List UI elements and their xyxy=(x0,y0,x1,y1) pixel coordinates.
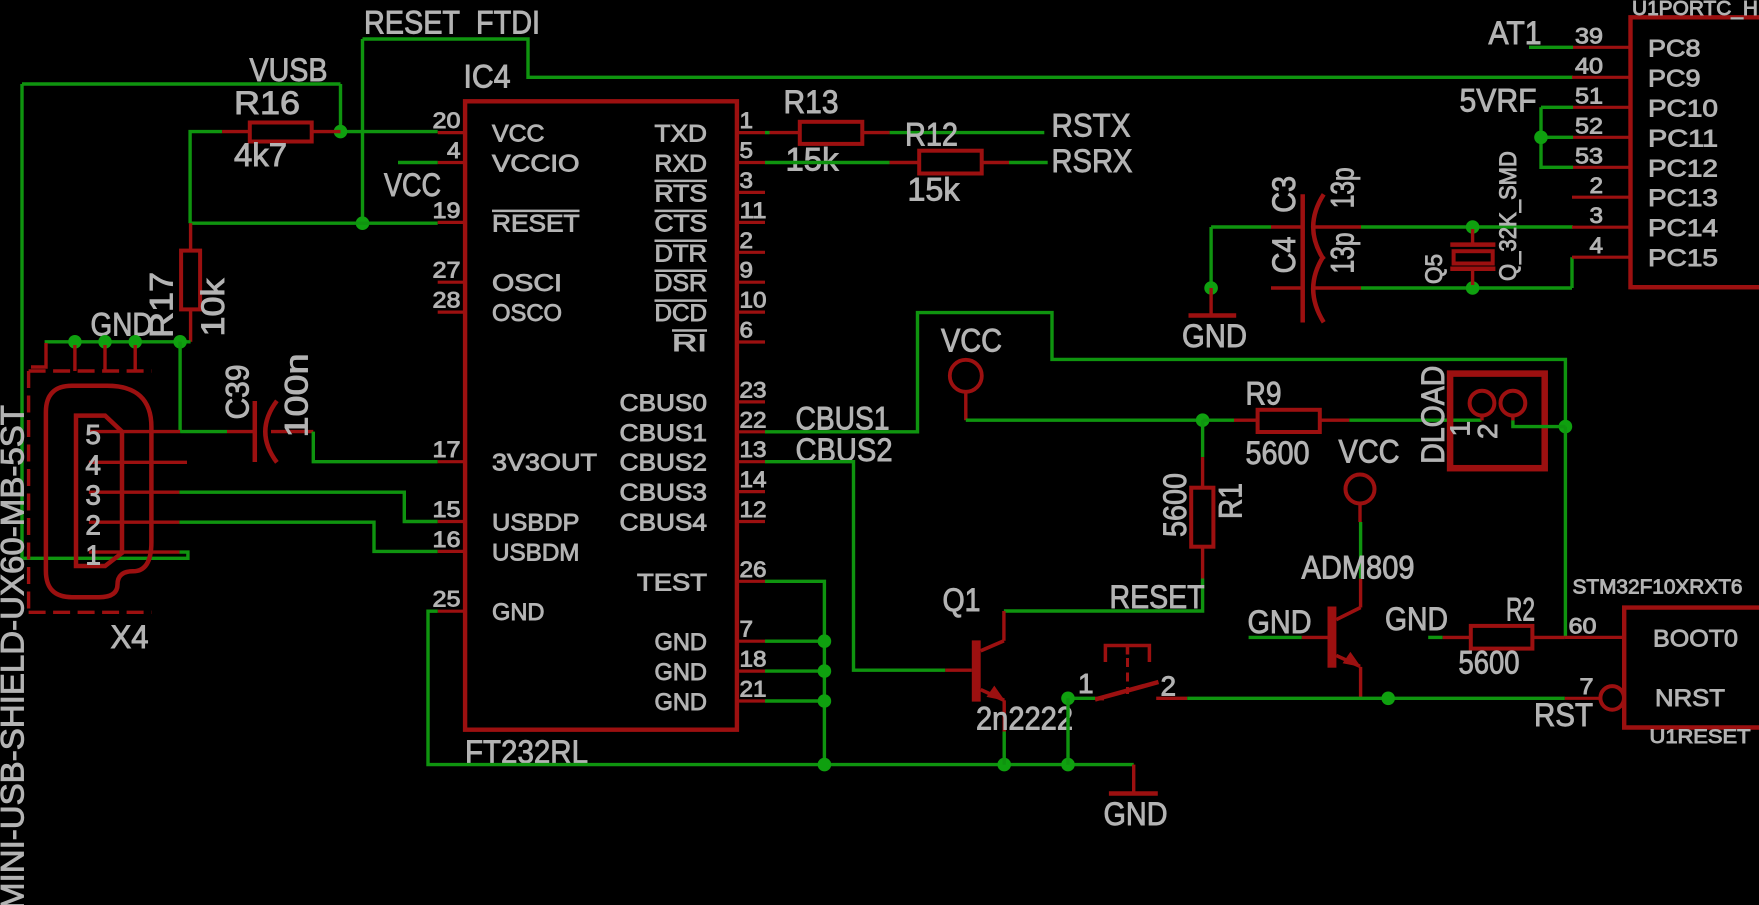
pin 9 IC4 right stub xyxy=(737,281,765,284)
junction VUSB/R16/VCC-pin xyxy=(334,125,348,139)
svg-text:11: 11 xyxy=(740,198,767,223)
pin 26 IC4 right stub xyxy=(737,580,765,583)
svg-text:USBDM: USBDM xyxy=(492,539,580,566)
wire GND rail xyxy=(45,340,191,343)
svg-text:PC11: PC11 xyxy=(1648,125,1718,152)
svg-text:RSRX: RSRX xyxy=(1052,143,1133,179)
svg-text:CBUS3: CBUS3 xyxy=(620,480,708,507)
ground GND symbol bottom xyxy=(1132,765,1135,794)
pin 16 IC4 left stub xyxy=(438,550,465,553)
op-amp U1PORTC_H box xyxy=(1631,17,1759,287)
wire TEST to GND pins xyxy=(765,581,824,764)
svg-text:51: 51 xyxy=(1575,83,1603,108)
svg-text:C4: C4 xyxy=(1266,237,1302,274)
pin 4 PC15 stub xyxy=(1572,256,1631,259)
svg-text:TEST: TEST xyxy=(637,569,707,596)
wire DLOAD pin 2 to junction xyxy=(1513,420,1566,426)
svg-text:15k: 15k xyxy=(908,172,961,208)
svg-text:OSCO: OSCO xyxy=(492,300,562,327)
pin 20 IC4 left stub xyxy=(438,131,465,134)
wire Q1 emitter to GND rail xyxy=(1003,732,1006,765)
connector X4 pin 4 line xyxy=(89,461,187,464)
switch S1 pin 2 xyxy=(1156,697,1187,700)
svg-text:PC15: PC15 xyxy=(1648,245,1718,272)
pin 14 IC4 right stub xyxy=(737,490,765,493)
svg-text:VCC: VCC xyxy=(384,167,441,203)
svg-text:RTS: RTS xyxy=(655,180,708,207)
wire GND stub at R2 xyxy=(1428,636,1443,639)
pin 27 IC4 left stub xyxy=(438,281,465,284)
connector X4 shield pin c xyxy=(133,345,136,371)
svg-text:60: 60 xyxy=(1569,614,1597,639)
svg-text:39: 39 xyxy=(1575,23,1603,48)
pin 17 IC4 left stub xyxy=(438,460,465,463)
svg-text:7: 7 xyxy=(1580,674,1594,699)
pin 3 IC4 right stub xyxy=(737,191,765,194)
pin 53 PC12 stub xyxy=(1572,166,1631,169)
svg-text:CBUS4: CBUS4 xyxy=(620,510,708,537)
svg-text:OSCI: OSCI xyxy=(492,270,562,297)
svg-text:C39: C39 xyxy=(220,365,256,420)
resistor R16 xyxy=(222,130,250,133)
svg-text:RSTX: RSTX xyxy=(1052,108,1131,144)
pin 1 IC4 right stub xyxy=(737,131,765,134)
pin 25 IC4 left stub xyxy=(438,610,465,613)
switch S1 pin 1 xyxy=(1074,697,1095,700)
connector DLOAD body xyxy=(1450,374,1545,469)
svg-text:U1RESET: U1RESET xyxy=(1650,727,1751,748)
resistor R2 xyxy=(1443,636,1471,639)
junction Q5 bottom xyxy=(1466,281,1480,295)
wire RESET_FTDI vertical to pin19 row xyxy=(361,39,364,223)
svg-text:IC4: IC4 xyxy=(464,59,511,95)
junction C4/GND xyxy=(1204,281,1218,295)
crystal Q5 xyxy=(1471,229,1474,245)
svg-text:RST: RST xyxy=(1534,697,1593,733)
junction CBUS1/DLOAD pin2 xyxy=(1559,420,1573,434)
junction GND pin 18 xyxy=(818,664,832,678)
wire 5VRF to PC11 xyxy=(1541,136,1573,139)
svg-text:GND: GND xyxy=(655,629,708,656)
pin 2 PC13 stub xyxy=(1572,196,1631,199)
svg-text:3: 3 xyxy=(740,168,754,193)
svg-text:GND: GND xyxy=(1248,604,1312,640)
wire GND pin 21 stub xyxy=(765,699,824,702)
connector X4 shield pin d corner xyxy=(31,343,46,367)
svg-text:13p: 13p xyxy=(1325,233,1361,274)
svg-text:CBUS2: CBUS2 xyxy=(620,450,708,477)
pin 2 IC4 right stub xyxy=(737,251,765,254)
svg-text:12: 12 xyxy=(740,497,767,522)
wire GND pin 7 stub xyxy=(765,640,824,643)
pin 19 IC4 left stub xyxy=(438,221,465,224)
svg-text:5: 5 xyxy=(85,419,101,450)
switch S1 contact blade xyxy=(1095,682,1159,700)
transistor Q1 2n2222 xyxy=(972,640,981,701)
wire VCC stub at pin 4 xyxy=(398,161,438,164)
pin 6 IC4 right stub xyxy=(737,340,765,343)
pin 23 IC4 right stub xyxy=(737,400,765,403)
connector X4 pin 1 line xyxy=(89,550,179,553)
svg-text:DCD: DCD xyxy=(655,300,708,327)
wire R1 to RESET wire xyxy=(1004,579,1203,612)
svg-text:2n2222: 2n2222 xyxy=(976,701,1073,737)
pin 12 IC4 right stub xyxy=(737,520,765,523)
svg-text:R2: R2 xyxy=(1506,592,1535,628)
wire VUSB left vertical to X4 pin1 xyxy=(22,84,188,558)
junction RESET_FTDI/pin19 xyxy=(356,216,370,230)
svg-text:10k: 10k xyxy=(195,277,231,336)
wire R16-R17 to IC4 RESET pin 19 xyxy=(190,221,438,224)
svg-text:GND: GND xyxy=(1385,601,1448,637)
wire VCC to ADM809 xyxy=(1359,522,1362,579)
svg-text:27: 27 xyxy=(433,258,461,283)
svg-text:22: 22 xyxy=(740,407,767,432)
svg-text:5600: 5600 xyxy=(1157,473,1193,537)
wire PC15 riser xyxy=(1570,257,1573,288)
svg-text:2: 2 xyxy=(1590,173,1604,198)
svg-text:20: 20 xyxy=(433,108,461,133)
wire crystal left vertical xyxy=(1209,227,1212,288)
wire C4 to PC15 rail xyxy=(1361,286,1572,289)
pin 21 IC4 right stub xyxy=(737,699,765,702)
svg-text:R13: R13 xyxy=(784,84,839,120)
connector X4 dashed outline xyxy=(29,369,152,372)
connector X4 shield pin b xyxy=(103,345,106,371)
wire GND stub at ADM809 base xyxy=(1249,636,1302,639)
svg-text:PC9: PC9 xyxy=(1648,65,1701,92)
svg-text:BOOT0: BOOT0 xyxy=(1653,626,1738,653)
svg-text:DSR: DSR xyxy=(655,270,708,297)
svg-text:PC8: PC8 xyxy=(1648,35,1701,62)
wire VUSB top horizontal xyxy=(22,82,341,85)
resistor R9 xyxy=(1234,419,1258,422)
resistor R13 xyxy=(770,131,800,134)
pin 22 IC4 right stub xyxy=(737,430,765,433)
wire VUSB to IC4 pin 20 xyxy=(341,130,438,133)
svg-text:53: 53 xyxy=(1575,143,1603,168)
junction switch pin 1 xyxy=(1061,692,1075,706)
svg-text:DLOAD: DLOAD xyxy=(1415,366,1451,464)
svg-text:TXD: TXD xyxy=(655,121,708,148)
svg-text:RXD: RXD xyxy=(655,151,708,178)
op-amp U1 IC4 FT232RL body xyxy=(465,101,737,729)
svg-text:2: 2 xyxy=(1161,671,1177,702)
svg-text:28: 28 xyxy=(433,288,461,313)
svg-text:26: 26 xyxy=(740,557,767,582)
connector X4 pin 5 line xyxy=(89,430,180,433)
wire TXD stub xyxy=(765,131,770,134)
junction GND rail / Q1 emitter xyxy=(997,758,1011,772)
switch S1 button bracket xyxy=(1105,646,1149,663)
wire R16 left lead drop xyxy=(190,132,222,224)
junction GND rail 4 xyxy=(173,335,187,349)
wire RSTX xyxy=(890,131,1045,134)
pin 18 IC4 right stub xyxy=(737,669,765,672)
connector X4 outer shell xyxy=(46,386,151,597)
wire GND pin 18 stub xyxy=(765,669,824,672)
svg-text:1: 1 xyxy=(740,108,754,133)
wire VCC junction to R9 xyxy=(1203,419,1234,422)
svg-text:PC12: PC12 xyxy=(1648,155,1718,182)
svg-text:5: 5 xyxy=(740,138,754,163)
connector X4 inner cavity xyxy=(76,416,122,566)
svg-text:VCC: VCC xyxy=(941,323,1002,359)
svg-text:PC14: PC14 xyxy=(1648,215,1718,242)
capacitor C39 xyxy=(227,430,255,433)
pin 7 NRST bubble xyxy=(1600,686,1624,710)
wire CBUS1 down to R2 row xyxy=(1564,427,1567,638)
wire VCC to junction xyxy=(966,419,1203,422)
svg-text:15k: 15k xyxy=(786,142,840,178)
svg-text:21: 21 xyxy=(740,677,767,702)
svg-text:Q_32K_SMD: Q_32K_SMD xyxy=(1495,151,1522,281)
pin 28 IC4 left stub xyxy=(438,311,465,314)
svg-text:17: 17 xyxy=(433,437,461,462)
wire 5VRF to PC10/PC11/PC12 xyxy=(1541,106,1573,109)
svg-text:RESET: RESET xyxy=(492,210,580,237)
wire RESET_FTDI top segment xyxy=(363,39,1574,77)
pin 39 PC8 stub xyxy=(1572,46,1631,49)
svg-text:MINI-USB-SHIELD-UX60-MB-5ST: MINI-USB-SHIELD-UX60-MB-5ST xyxy=(0,405,31,905)
svg-text:3: 3 xyxy=(85,480,101,511)
wire RST from switch pin2 to NRST xyxy=(1187,697,1565,700)
pin 5 IC4 right stub xyxy=(737,161,765,164)
transistor ADM809 xyxy=(1359,579,1362,608)
svg-text:RESET: RESET xyxy=(1110,579,1205,615)
svg-text:CTS: CTS xyxy=(655,210,708,237)
pin 10 IC4 right stub xyxy=(737,311,765,314)
svg-text:23: 23 xyxy=(740,377,767,402)
wire USBDM X4 pin2 to IC4 pin16 xyxy=(179,522,437,551)
svg-text:R9: R9 xyxy=(1246,376,1282,412)
svg-text:3V3OUT: 3V3OUT xyxy=(492,450,597,477)
wire VUSB drop to R16 right xyxy=(339,84,342,132)
wire X4 pin5 to C39 xyxy=(180,430,227,433)
svg-text:4: 4 xyxy=(85,450,101,481)
junction GND pin 7 xyxy=(818,634,832,648)
resistor R1 xyxy=(1201,457,1204,488)
svg-text:5600: 5600 xyxy=(1246,435,1310,471)
svg-text:5VRF: 5VRF xyxy=(1460,83,1537,119)
wire AT1 to PC8 xyxy=(1529,46,1573,49)
svg-text:GND: GND xyxy=(655,689,708,716)
junction RST xyxy=(1381,692,1395,706)
wire CBUS2 from pin 13 to Q1 base xyxy=(765,462,945,671)
svg-text:Q1: Q1 xyxy=(943,582,981,618)
svg-text:16: 16 xyxy=(433,527,461,552)
wire CBUS1 from pin 22 xyxy=(765,313,1565,432)
svg-text:CBUS1: CBUS1 xyxy=(620,420,708,447)
junction GND rail 2 xyxy=(98,335,112,349)
svg-text:15: 15 xyxy=(433,497,461,522)
svg-text:VCCIO: VCCIO xyxy=(492,151,580,178)
svg-text:10: 10 xyxy=(740,288,767,313)
pin 13 IC4 right stub xyxy=(737,460,765,463)
svg-text:100n: 100n xyxy=(279,354,315,438)
junction GND rail / TEST column xyxy=(818,758,832,772)
connector DLOAD pin 2 circle xyxy=(1501,391,1526,416)
pin 3 PC14 stub xyxy=(1572,226,1631,229)
connector X4 pin 3 line xyxy=(89,491,179,494)
svg-text:40: 40 xyxy=(1575,53,1603,78)
resistor R12 xyxy=(890,161,920,164)
svg-text:CBUS0: CBUS0 xyxy=(620,390,708,417)
junction Q5 top xyxy=(1466,220,1480,234)
svg-text:13: 13 xyxy=(740,437,767,462)
pin 4 IC4 left stub xyxy=(438,161,465,164)
pin 52 PC11 stub xyxy=(1572,136,1631,139)
svg-text:25: 25 xyxy=(433,587,461,612)
connector X4 shield pin a xyxy=(73,345,76,371)
svg-text:VCC: VCC xyxy=(1339,434,1400,470)
svg-text:14: 14 xyxy=(740,467,767,492)
svg-text:1: 1 xyxy=(85,540,101,571)
svg-text:R16: R16 xyxy=(234,85,300,121)
svg-text:4k7: 4k7 xyxy=(234,137,287,173)
svg-text:R1: R1 xyxy=(1213,483,1249,519)
pin 51 PC10 stub xyxy=(1572,106,1631,109)
junction VCC/R9/R1 xyxy=(1196,413,1210,427)
svg-text:2: 2 xyxy=(85,510,101,541)
svg-text:DTR: DTR xyxy=(655,240,708,267)
wire C3 to PC14 xyxy=(1361,225,1573,228)
wire junction to R1 xyxy=(1201,420,1204,457)
wire PC14 net top rail xyxy=(1211,225,1271,228)
svg-text:STM32F10XRXT6: STM32F10XRXT6 xyxy=(1573,577,1743,599)
svg-text:NRST: NRST xyxy=(1655,685,1725,712)
junction GND rail 1 xyxy=(68,335,82,349)
svg-text:4: 4 xyxy=(447,138,461,163)
svg-text:GND: GND xyxy=(1104,796,1168,832)
op-amp U1RESET box xyxy=(1624,608,1759,728)
connector DLOAD pin 1 circle xyxy=(1470,391,1495,416)
svg-text:C3: C3 xyxy=(1266,176,1302,213)
wire X4 pin5 riser xyxy=(178,342,181,432)
pin 60 BOOT0 stub xyxy=(1565,636,1624,639)
connector X4 pin 2 line xyxy=(89,521,179,524)
svg-text:4: 4 xyxy=(1590,233,1604,258)
svg-text:1: 1 xyxy=(1445,421,1476,437)
capacitor C3 xyxy=(1271,225,1303,228)
svg-text:18: 18 xyxy=(740,647,767,672)
wire C39 to IC4 pin 17 xyxy=(313,432,437,462)
pin 11 IC4 right stub xyxy=(737,221,765,224)
wire RSRX xyxy=(1009,161,1048,164)
svg-text:GND: GND xyxy=(1182,318,1247,354)
svg-text:ADM809: ADM809 xyxy=(1302,550,1415,586)
svg-text:PC10: PC10 xyxy=(1648,95,1718,122)
junction GND rail 3 xyxy=(128,335,142,349)
capacitor C4 xyxy=(1271,286,1303,289)
ground GND symbol at crystal xyxy=(1209,288,1212,316)
svg-text:GND: GND xyxy=(492,599,545,626)
wire USBDP X4 pin3 to IC4 pin15 xyxy=(179,492,437,521)
svg-text:X4: X4 xyxy=(111,619,149,655)
svg-text:USBDP: USBDP xyxy=(492,510,580,537)
svg-text:3: 3 xyxy=(1590,203,1604,228)
pin 15 IC4 left stub xyxy=(438,520,465,523)
svg-text:RESET_FTDI: RESET_FTDI xyxy=(364,5,540,41)
svg-text:U1PORTC_H: U1PORTC_H xyxy=(1632,0,1758,20)
svg-text:13p: 13p xyxy=(1325,167,1361,208)
pin 7 IC4 right stub xyxy=(737,640,765,643)
svg-text:GND: GND xyxy=(655,659,708,686)
svg-text:RI: RI xyxy=(672,330,707,357)
wire RXD to R12 xyxy=(765,161,890,164)
junction 5VRF xyxy=(1534,131,1548,145)
switch S1 plunger dashed stem xyxy=(1126,658,1129,694)
pin 40 PC9 stub xyxy=(1572,76,1631,79)
svg-text:Q5: Q5 xyxy=(1421,254,1448,284)
wire switch pin1 to GND rail xyxy=(1066,698,1069,764)
svg-text:52: 52 xyxy=(1575,113,1603,138)
wire IC4 pin 25 to GND rail xyxy=(428,611,1134,764)
svg-text:VCC: VCC xyxy=(492,121,545,148)
resistor R17 xyxy=(189,223,192,250)
junction GND pin 21 xyxy=(818,694,832,708)
svg-text:2: 2 xyxy=(740,228,754,253)
svg-text:R12: R12 xyxy=(905,117,958,153)
svg-text:7: 7 xyxy=(740,617,754,642)
svg-text:GND: GND xyxy=(91,307,153,343)
junction GND rail / switch pin1 column xyxy=(1061,758,1075,772)
svg-text:9: 9 xyxy=(740,258,754,283)
svg-text:1: 1 xyxy=(1078,668,1094,699)
svg-text:2: 2 xyxy=(1472,423,1503,439)
wire R9 to DLOAD pin1 xyxy=(1349,419,1481,422)
svg-text:6: 6 xyxy=(740,318,754,343)
svg-text:PC13: PC13 xyxy=(1648,185,1718,212)
svg-text:5600: 5600 xyxy=(1459,645,1520,681)
